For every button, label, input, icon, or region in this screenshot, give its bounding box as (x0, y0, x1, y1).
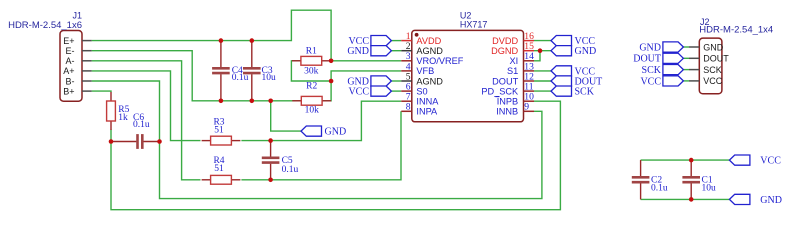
node E+ / C3 (250, 38, 255, 43)
capacitor C4 (212, 41, 230, 101)
net flag DOUT at J2 pin 2 (633, 53, 683, 64)
resistor R1 (292, 56, 331, 65)
wire node to pin 3 VRO/VREF (331, 60, 401, 62)
overline on INPB (495, 96, 499, 98)
svg-text:DOUT: DOUT (633, 54, 661, 65)
svg-text:10u: 10u (702, 184, 717, 194)
wire pin 15 to GND flag (534, 50, 551, 52)
resistor R2 (292, 96, 331, 105)
svg-text:GND: GND (325, 127, 347, 138)
svg-text:HDR-M-2.54_1x4: HDR-M-2.54_1x4 (699, 25, 773, 36)
svg-text:S0: S0 (416, 86, 427, 96)
svg-text:0.1u: 0.1u (133, 120, 150, 130)
svg-text:SCK: SCK (703, 65, 722, 75)
resistor R3 (202, 136, 241, 145)
wire pin 12 to DOUT flag (534, 80, 551, 82)
svg-text:0.1u: 0.1u (651, 184, 668, 194)
resistor R5 (107, 92, 116, 130)
svg-text:INPB: INPB (497, 97, 518, 107)
svg-text:GND: GND (639, 42, 661, 53)
svg-text:DGND: DGND (491, 46, 518, 56)
ground flag GND at pin 15 (551, 46, 596, 58)
connector J1 body (60, 31, 82, 102)
connector J1 pin stubs (82, 41, 92, 92)
svg-text:AGND: AGND (416, 76, 443, 86)
net flag GND at J2 pin 1 (639, 42, 683, 54)
svg-text:AVDD: AVDD (416, 36, 441, 46)
connector J2 body (699, 38, 722, 94)
svg-text:SCK: SCK (642, 65, 662, 76)
node INNA / C5 (268, 138, 273, 143)
svg-text:1k: 1k (118, 113, 128, 123)
node VRO/R1 (329, 59, 334, 64)
svg-text:PD_SCK: PD_SCK (481, 86, 519, 96)
svg-text:S1: S1 (507, 66, 518, 76)
svg-text:0.1u: 0.1u (232, 73, 249, 83)
power flag VCC bottom right (729, 155, 781, 167)
wire VFB node to R1 left (291, 61, 331, 81)
capacitor C2 (632, 160, 650, 199)
svg-text:AGND: AGND (416, 46, 443, 56)
wire pin 14 XI to DGND node (534, 51, 540, 61)
node INPA / C5 (268, 178, 273, 183)
chip U2 right pin stubs (524, 41, 535, 112)
svg-text:GND: GND (575, 46, 597, 57)
node R5 / C6 / INPB (109, 139, 114, 144)
wire A+ to R3 left (92, 71, 201, 141)
svg-text:0.1u: 0.1u (282, 165, 299, 175)
svg-text:INNA: INNA (416, 97, 439, 107)
power flag VCC at pin 1 (348, 36, 391, 48)
wire R4 right to pin 8 INPA (241, 111, 401, 180)
ground flag GND at pin 2 (347, 46, 391, 58)
svg-text:E-: E- (66, 46, 75, 56)
wire R2 right to VFB node (322, 81, 331, 101)
resistor R4 (202, 175, 241, 184)
svg-text:INPA: INPA (416, 107, 438, 117)
svg-text:51: 51 (214, 164, 224, 174)
svg-text:VCC: VCC (760, 156, 781, 167)
node AGND / C3 (250, 99, 255, 104)
wire pin 11 to SCK flag (534, 90, 551, 92)
wire pin 13 to VCC flag (534, 70, 551, 72)
power flag VCC at pin 6 (348, 86, 391, 98)
wire R3 right to pin 7 INNA (241, 101, 401, 140)
node VFB (329, 79, 334, 84)
wire flag to J2 pin 2 (683, 57, 689, 59)
svg-text:VFB: VFB (416, 66, 434, 76)
svg-text:8: 8 (406, 102, 411, 113)
node E+ / C4 (219, 38, 224, 43)
wire E+ rail to VRO/VREF node (92, 10, 331, 61)
wire A- to R4 left (92, 61, 201, 180)
svg-text:30k: 30k (304, 66, 319, 76)
net flag DOUT at pin 12 (551, 76, 602, 88)
svg-text:51: 51 (214, 126, 224, 136)
svg-text:DOUT: DOUT (703, 54, 729, 64)
ground flag GND bottom right (729, 194, 782, 206)
chip U2 left pin stubs (401, 41, 412, 112)
power flag VCC at pin 16 (551, 36, 595, 48)
capacitor C5 (262, 141, 280, 180)
wire B+ to R5 top (92, 90, 111, 93)
node VCC / C1 (689, 158, 694, 163)
svg-text:HX717: HX717 (460, 19, 488, 29)
svg-text:E+: E+ (63, 36, 74, 46)
svg-text:VRO/VREF: VRO/VREF (416, 56, 463, 66)
ground flag GND at AGND rail (301, 126, 346, 138)
capacitor C6 (111, 134, 160, 149)
svg-text:9: 9 (524, 102, 529, 113)
op-amp U2 HX717 body (412, 30, 524, 121)
node AGND / GND flag (268, 99, 273, 104)
net flag VCC at J2 pin 4 (640, 76, 683, 88)
wire GND rail bottom right (641, 198, 730, 200)
wire B- to pin 9 INNB (92, 81, 542, 199)
wire VCC rail bottom right (641, 159, 730, 161)
svg-text:10u: 10u (262, 73, 277, 83)
svg-text:GND: GND (760, 195, 782, 206)
ground flag GND at pin 5 (347, 76, 391, 88)
capacitor C1 (682, 160, 700, 199)
svg-text:A-: A- (66, 56, 75, 66)
wire GND flag to pin 2 (391, 50, 401, 52)
connector J2 pin names (703, 42, 729, 86)
wire VCC flag to pin 1 (391, 40, 401, 42)
svg-text:XI: XI (510, 56, 519, 66)
svg-text:R2: R2 (306, 82, 317, 92)
node B- / C6 (157, 139, 162, 144)
wire pin 16 to VCC flag (534, 40, 551, 42)
svg-text:R1: R1 (306, 46, 317, 56)
svg-text:10k: 10k (305, 105, 320, 115)
svg-text:GND: GND (703, 42, 724, 52)
svg-text:VCC: VCC (640, 76, 661, 87)
wire flag to J2 pin 1 (683, 46, 689, 48)
wire VFB node to pin 4 VFB (331, 71, 401, 81)
wire R5/C6 node to pin 10 INPB (111, 101, 560, 210)
svg-text:VCC: VCC (348, 87, 369, 98)
wire flag to J2 pin 4 (683, 80, 689, 82)
net flag SCK at pin 11 (551, 86, 595, 98)
svg-text:B+: B+ (63, 86, 74, 96)
svg-text:A+: A+ (63, 66, 74, 76)
wire AGND rail to GND flag (271, 101, 301, 131)
connector J1 pin names (63, 36, 74, 97)
capacitor C3 (243, 41, 261, 101)
wire flag to J2 pin 3 (683, 69, 689, 71)
node DGND / XI (538, 48, 543, 53)
svg-text:DOUT: DOUT (492, 76, 518, 86)
wire E- to AGND bottom rail (92, 51, 301, 101)
svg-text:INNB: INNB (496, 107, 518, 117)
svg-text:HDR-M-2.54_1x6: HDR-M-2.54_1x6 (8, 20, 82, 31)
svg-text:B-: B- (66, 76, 75, 86)
wire GND flag to pin 5 (391, 80, 401, 82)
connector J2 pin stubs (689, 47, 699, 81)
wire VCC flag to pin 6 (391, 90, 401, 92)
node AGND / C4 (219, 99, 224, 104)
svg-text:J1: J1 (72, 10, 82, 20)
svg-text:VCC: VCC (703, 76, 723, 86)
power flag VCC at pin 13 (551, 66, 595, 78)
svg-text:SCK: SCK (575, 87, 595, 98)
node GND / C1 (689, 197, 694, 202)
svg-text:GND: GND (347, 46, 369, 57)
svg-text:DVDD: DVDD (492, 36, 518, 46)
net flag SCK at J2 pin 3 (642, 65, 684, 77)
